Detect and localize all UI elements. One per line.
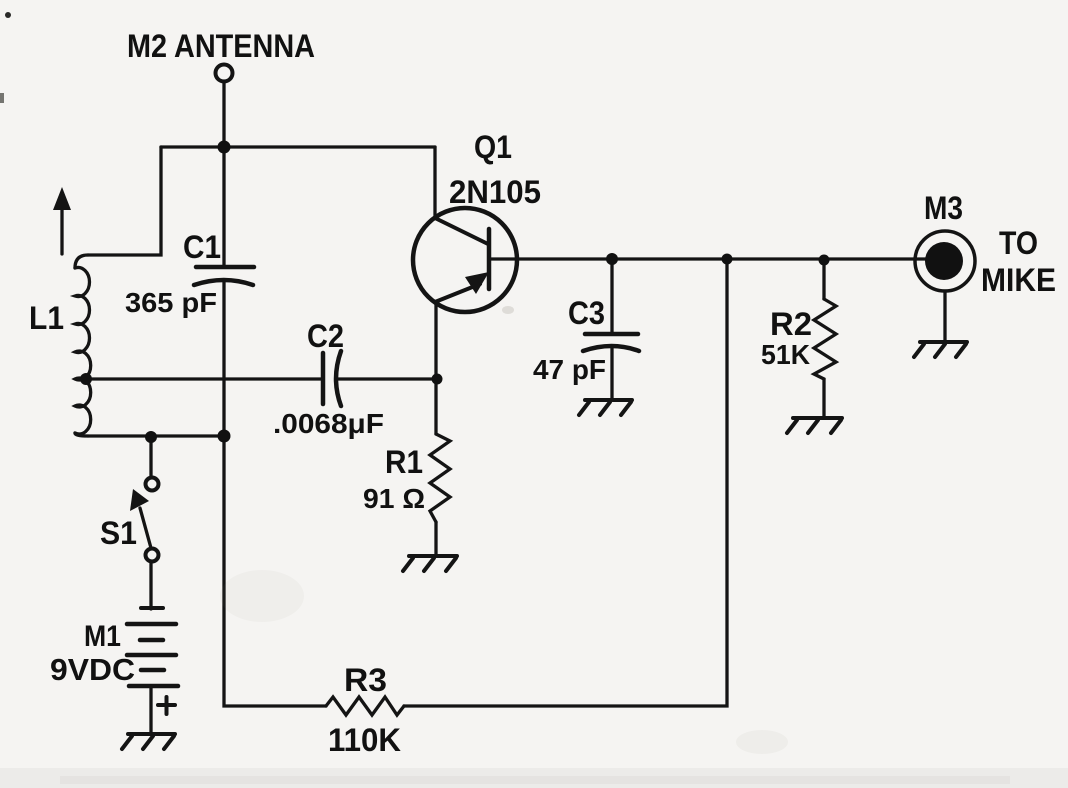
- svg-text:365 pF: 365 pF: [125, 287, 217, 318]
- transistor Q1 collector diagonal: [435, 218, 488, 244]
- wire left drop to coil: [88, 147, 161, 255]
- junction node S1 top: [145, 431, 157, 443]
- svg-text:110K: 110K: [328, 722, 401, 758]
- svg-text:R3: R3: [344, 662, 387, 698]
- jack M3 center: [925, 242, 963, 280]
- antenna terminal M2: [216, 65, 233, 82]
- capacitor C3 top lead: [610, 259, 613, 334]
- wire C1 top lead: [222, 147, 225, 267]
- scan mark left edge: [0, 93, 4, 103]
- transistor Q1 base bar: [487, 229, 492, 289]
- capacitor C3 top plate: [585, 332, 638, 337]
- switch S1 lever: [140, 508, 151, 548]
- switch S1 top lead: [149, 437, 152, 477]
- ground R2: [787, 418, 842, 433]
- svg-text:R1: R1: [385, 444, 423, 480]
- transistor Q1 emitter diagonal: [435, 284, 480, 302]
- switch S1 contacts: [146, 478, 159, 491]
- wire bottom rail right: [404, 259, 727, 706]
- transistor Q1 emitter arrow: [465, 272, 489, 294]
- arrow above L1: [60, 202, 63, 254]
- faint smudge: [220, 570, 304, 622]
- svg-text:L1: L1: [29, 300, 64, 336]
- scan speck top-left: [5, 12, 11, 18]
- wire C2 right to junction: [338, 377, 437, 380]
- ground R1: [403, 556, 457, 571]
- svg-text:M3: M3: [924, 190, 963, 226]
- inductor L1: [75, 268, 91, 435]
- label battery plus: [158, 697, 175, 714]
- battery M1 plates: [141, 606, 163, 610]
- junction node C3 top: [606, 253, 618, 265]
- svg-text:C2: C2: [307, 318, 344, 354]
- transistor Q1 collector lead: [433, 147, 436, 218]
- jack M3 ground lead: [943, 291, 946, 341]
- wire coil bottom to junction: [88, 434, 224, 437]
- junction node coil tap: [80, 373, 92, 385]
- junction node R2 top: [819, 255, 830, 266]
- capacitor C2 curved plate: [336, 351, 341, 406]
- svg-text:R2: R2: [770, 306, 812, 342]
- resistor R1: [430, 434, 450, 522]
- wire C1 bottom lead: [222, 281, 225, 436]
- wire left vertical to bottom rail: [224, 436, 326, 706]
- switch S1 bottom lead: [149, 561, 152, 609]
- junction node C2 right: [432, 374, 443, 385]
- svg-text:47 pF: 47 pF: [533, 354, 606, 385]
- svg-text:.0068μF: .0068μF: [273, 408, 384, 439]
- wire base rail to M3: [489, 257, 928, 260]
- junction node left vertical: [218, 430, 231, 443]
- svg-text:M1: M1: [84, 620, 121, 653]
- svg-text:TO: TO: [999, 225, 1038, 261]
- ground M3: [914, 342, 967, 357]
- wire antenna drop: [222, 81, 225, 147]
- wire R2 to ground: [822, 379, 825, 417]
- switch S1 lever arrowhead: [130, 489, 149, 511]
- scan noise bottom band: [0, 768, 1068, 788]
- wire tap to C2: [86, 377, 321, 380]
- svg-text:2N105: 2N105: [449, 174, 541, 210]
- capacitor C1 top plate: [196, 265, 254, 270]
- jack M3 outer ring: [915, 231, 975, 291]
- svg-text:S1: S1: [100, 515, 137, 551]
- ground M1: [122, 734, 175, 749]
- svg-text:91 Ω: 91 Ω: [363, 483, 425, 514]
- resistor R2: [814, 299, 836, 379]
- arrowhead of L1 arrow: [53, 187, 71, 210]
- svg-text:M2 ANTENNA: M2 ANTENNA: [127, 28, 315, 64]
- resistor R2 top lead: [822, 260, 825, 299]
- junction node right vertical: [722, 254, 733, 265]
- junction node antenna/top rail: [218, 141, 231, 154]
- ground C3: [579, 400, 632, 415]
- battery M1 bottom lead: [149, 686, 152, 734]
- wire coil bottom corner: [75, 433, 88, 436]
- resistor R3: [326, 697, 404, 715]
- capacitor C2 left plate: [321, 353, 326, 404]
- capacitor C3 curved plate: [583, 346, 639, 351]
- transistor Q1 circle: [413, 208, 517, 312]
- capacitor C3 bottom lead: [610, 347, 613, 399]
- svg-text:MIKE: MIKE: [981, 262, 1056, 298]
- wire R1 to ground: [434, 522, 437, 555]
- svg-text:Q1: Q1: [474, 129, 512, 165]
- svg-text:51K: 51K: [761, 339, 810, 370]
- capacitor C1 curved plate: [194, 280, 253, 285]
- wire top rail: [161, 145, 435, 148]
- svg-text:9VDC: 9VDC: [50, 652, 135, 687]
- wire coil top corner: [75, 255, 88, 268]
- svg-text:C3: C3: [568, 295, 605, 331]
- wire Q1 emitter to R1: [434, 302, 437, 434]
- svg-text:C1: C1: [183, 229, 221, 265]
